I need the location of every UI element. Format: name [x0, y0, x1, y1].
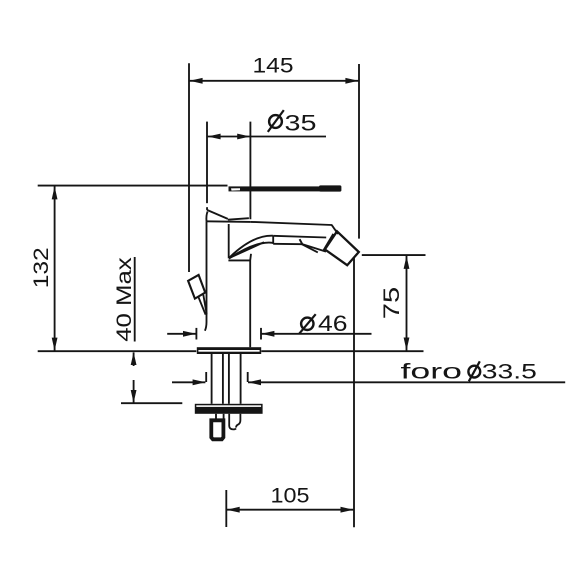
body right edge: [249, 254, 252, 347]
svg-text:75: 75: [379, 287, 404, 320]
dimension foro 33.5 right hook tick: [247, 372, 249, 382]
dimension 75 line: [406, 256, 408, 351]
dimension 46 arrow left: [183, 331, 196, 337]
dimension 132 arrow bottom: [52, 338, 58, 351]
below-nut stub lines: [215, 414, 217, 419]
dimension 75 arrow top: [404, 256, 410, 269]
dimension 105 arrow left: [227, 507, 240, 513]
dimension 46 left tick: [195, 328, 197, 340]
long vertical extension line B (105 right / 75 left): [353, 258, 355, 528]
mounting nut: [195, 404, 263, 414]
dimension 35 line: [207, 136, 326, 138]
dimension 105 line: [227, 509, 354, 511]
dimension 46 left line: [167, 333, 196, 335]
dimension 132 top reference line: [38, 185, 228, 187]
svg-text:foro: foro: [401, 360, 463, 384]
dimension 40 Max underline: [134, 257, 136, 342]
dimension 145 extension line left: [188, 63, 190, 272]
dimension 105 arrow right: [341, 507, 354, 513]
spout root inner vertical: [228, 224, 230, 258]
body top edge: [207, 220, 251, 223]
svg-text:35: 35: [285, 110, 317, 135]
svg-text:33.5: 33.5: [482, 360, 537, 384]
counter deck line left segment: [38, 350, 197, 352]
dimension 46 label diameter symbol: [301, 318, 313, 330]
handle neck diagonal: [207, 210, 228, 219]
svg-text:46: 46: [318, 311, 348, 336]
spout upper tip line: [273, 236, 326, 238]
handle neck left arc: [206, 212, 207, 222]
dimension 35 extension line left: [206, 122, 208, 204]
spout lower chord diagonal: [229, 242, 264, 258]
dimension 40 Max bottom reference line: [121, 402, 182, 404]
threaded stud: [211, 420, 223, 439]
dimension 46 right tick: [260, 328, 262, 340]
spout top edge: [251, 222, 332, 225]
faucet lever handle bar: [229, 186, 321, 191]
dimension 145 extension line right: [358, 64, 360, 239]
body left edge: [205, 221, 207, 330]
aerator tilted box: [325, 231, 359, 265]
base flange: [197, 347, 261, 354]
spout underside inner curve: [229, 243, 273, 259]
dimension 46 right line: [261, 333, 371, 335]
spout tip V line lower: [302, 244, 318, 252]
dimension 35 extension line right / cartridge right edge: [249, 122, 251, 220]
side knob stem lines: [203, 295, 206, 315]
dimension 46 arrow right: [261, 331, 274, 337]
spout underside tick: [272, 236, 274, 244]
dimension foro 33.5 left hook tick: [205, 372, 207, 382]
handle bar white sliver: [231, 188, 240, 190]
spout lower tip line: [273, 243, 302, 245]
spout tip inner cut edge: [323, 234, 333, 251]
flexible hose break squiggle: [229, 414, 236, 430]
dimension 145 line: [190, 80, 359, 82]
dimension 132 arrow top: [52, 186, 58, 199]
dimension 105 extension tick left: [225, 490, 227, 527]
dimension 132 line: [54, 186, 56, 351]
dimension foro 33.5 left line: [172, 381, 205, 383]
svg-text:105: 105: [271, 484, 310, 508]
spout root bottom edge: [228, 259, 250, 261]
dimension foro 33.5 right line: [248, 381, 565, 383]
svg-text:132: 132: [29, 247, 53, 288]
foro diameter symbol: [468, 366, 480, 378]
dimension 145 arrow left: [190, 78, 203, 84]
dimension 145 arrow right: [345, 78, 358, 84]
shank vertical lines: [211, 354, 213, 404]
spout tip V line upper: [302, 244, 326, 252]
dimension 75 arrow bottom: [404, 338, 410, 351]
svg-text:145: 145: [253, 55, 294, 78]
dimension 35 arrow left: [208, 134, 221, 140]
dimension 35 arrow right: [237, 134, 250, 140]
counter deck line right segment: [261, 350, 423, 352]
spout underside outer curve: [229, 236, 273, 259]
spout tip cut edge: [332, 225, 338, 234]
cartridge bottom slant: [228, 218, 249, 220]
dimension 40 Max upper arrow segment: [133, 352, 135, 366]
dimension 40 Max lower arrow segment: [133, 380, 135, 403]
handle neck small dash: [206, 207, 208, 210]
side knob tilted box: [188, 275, 205, 299]
spout tip vertex spur: [300, 239, 303, 244]
dimension 35 label diameter symbol: [269, 115, 282, 128]
dimension 75 top reference line: [362, 254, 426, 256]
svg-text:40 Max: 40 Max: [113, 257, 136, 342]
